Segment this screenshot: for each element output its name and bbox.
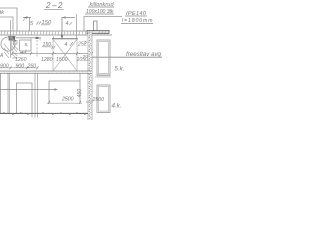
outer box top-left <box>0 8 17 31</box>
sill <box>95 76 111 78</box>
dim chain 2 line <box>0 67 38 69</box>
wall diagonal hatch left <box>4 44 18 58</box>
svg-text:4: 4 <box>66 21 69 27</box>
X-brace frame <box>52 38 78 40</box>
svg-text:1280: 1280 <box>41 57 53 63</box>
column stub on beam <box>94 21 98 31</box>
small dim arrows left window <box>14 41 18 45</box>
svg-text:450: 450 <box>77 89 83 98</box>
leader arrow <box>0 89 55 91</box>
door rect <box>17 83 33 118</box>
anchor verticals <box>10 20 12 58</box>
detail circle <box>1 37 15 51</box>
svg-text:2500: 2500 <box>92 97 105 103</box>
svg-text:50: 50 <box>83 54 88 59</box>
dark beam left <box>9 36 12 40</box>
dim chain 1 line <box>12 53 92 55</box>
dim marker A <box>23 17 31 19</box>
bracket line to IPE label <box>84 17 122 32</box>
slab band bottom line <box>0 34 112 36</box>
left window rect <box>20 40 32 51</box>
svg-text:900: 900 <box>0 63 9 69</box>
svg-text:4.k.: 4.k. <box>112 103 122 110</box>
svg-text:2–2: 2–2 <box>45 1 63 10</box>
slab hatch <box>1 31 108 35</box>
right window 2 <box>97 85 110 113</box>
right window 1 <box>97 40 110 75</box>
svg-text:l=1800mm: l=1800mm <box>122 18 153 24</box>
left outer wall edge <box>0 74 2 114</box>
svg-text:1260: 1260 <box>15 57 27 63</box>
inner box top-left <box>0 17 13 31</box>
dim marker B <box>62 18 75 39</box>
ground line <box>0 112 88 114</box>
lower wall left pair <box>7 74 9 114</box>
svg-text:1500: 1500 <box>56 57 68 63</box>
svg-text:4: 4 <box>65 42 68 48</box>
extension line x76.5 <box>76 14 78 39</box>
dark flange right <box>87 31 109 34</box>
right speckled column <box>87 33 89 120</box>
svg-text:5.k.: 5.k. <box>115 66 125 73</box>
svg-text:2500: 2500 <box>61 97 74 103</box>
svg-text:5,: 5, <box>25 42 29 48</box>
svg-text:900: 900 <box>16 63 25 69</box>
slab band top line <box>0 30 110 32</box>
lower slab band <box>0 70 92 72</box>
lower box 2500 <box>49 81 80 103</box>
middle column pair <box>34 74 36 118</box>
svg-text:150: 150 <box>42 20 52 26</box>
